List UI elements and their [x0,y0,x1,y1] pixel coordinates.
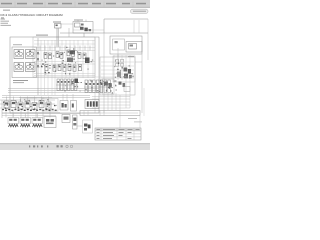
svg-text:DX-3 CLASS HYDRAULIC CIRCUIT: DX-3 CLASS HYDRAULIC CIRCUIT DIAGRAM [1,13,64,17]
